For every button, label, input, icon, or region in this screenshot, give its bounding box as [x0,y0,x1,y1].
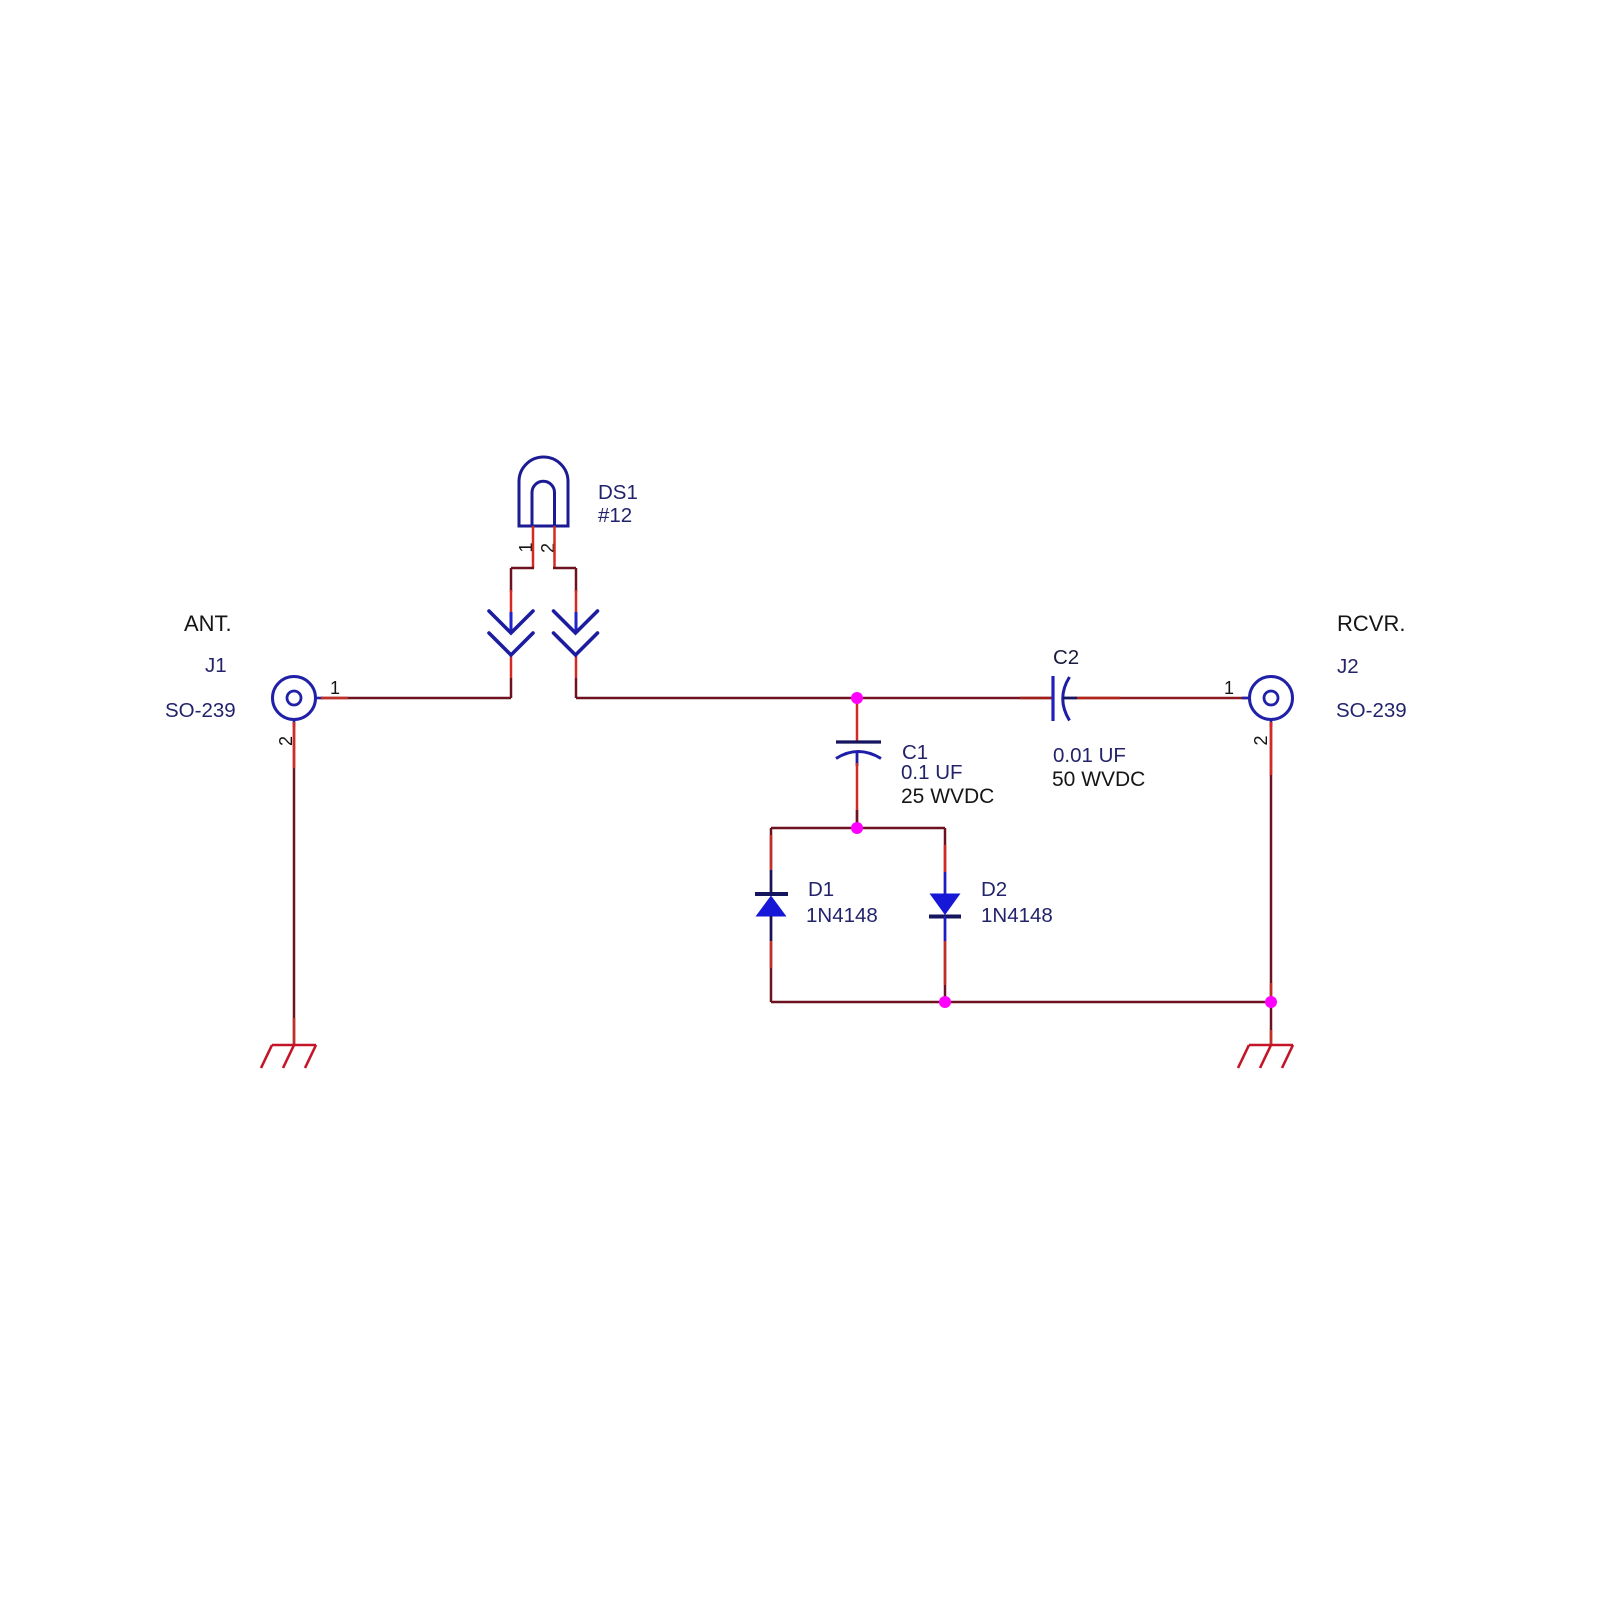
wire J1 pin1 to lamp socket left column [321,697,511,700]
svg-text:SO-239: SO-239 [165,699,236,722]
svg-text:0.01 UF: 0.01 UF [1053,744,1126,767]
wire node A to C2 [857,697,1052,700]
wire node D to ground [1270,1002,1273,1045]
ground symbol left [261,1045,316,1068]
wire C1 bottom lead [856,763,859,828]
wire DS1 pin2 lead [553,526,576,568]
wire diode box bottom [771,1001,945,1004]
wire C2 to J2 pin1 [1077,697,1250,700]
svg-text:1N4148: 1N4148 [806,904,878,927]
svg-text:1: 1 [1224,678,1234,698]
wire D1 lower lead [770,916,773,1002]
svg-text:J1: J1 [205,654,227,677]
svg-text:0.1 UF: 0.1 UF [901,761,963,784]
svg-text:2: 2 [1251,735,1271,745]
wire diode box top [771,827,945,830]
svg-text:25 WVDC: 25 WVDC [901,785,994,808]
svg-text:ANT.: ANT. [184,611,232,636]
svg-text:RCVR.: RCVR. [1337,611,1405,636]
wire D1 upper lead [770,828,773,894]
wire J1 pin2 down to ground [293,722,296,1045]
svg-text:#12: #12 [598,504,632,527]
wire DS1 pin1 lead [511,526,534,568]
node C junction [939,996,951,1008]
wire D2 upper lead [944,828,947,894]
node A junction [851,692,863,704]
wire D2 lower lead [944,916,947,1002]
lamp DS1 [519,457,568,526]
node B junction [851,822,863,834]
diode D2 [929,894,961,917]
wire right socket column [575,568,578,698]
svg-text:1N4148: 1N4148 [981,904,1053,927]
svg-text:50 WVDC: 50 WVDC [1052,768,1145,791]
wire left socket column [510,568,513,698]
connector J2 [1242,677,1293,728]
wire bottom run to node D [945,1001,1271,1004]
svg-text:C2: C2 [1053,646,1079,669]
node D junction [1265,996,1277,1008]
svg-text:D1: D1 [808,878,834,901]
svg-text:DS1: DS1 [598,481,638,504]
wire main run right socket to node A [576,697,857,700]
connector J1 [273,677,324,728]
diode D1 [755,894,788,917]
ground symbol right [1238,1045,1293,1068]
capacitor C2 [1053,676,1077,721]
wire J2 pin2 down to node D [1270,722,1273,1002]
svg-text:J2: J2 [1337,655,1359,678]
svg-text:D2: D2 [981,878,1007,901]
svg-text:1: 1 [330,678,340,698]
svg-text:SO-239: SO-239 [1336,699,1407,722]
wire C1 top lead [856,698,859,742]
capacitor C1 [836,742,881,766]
socket contact right (double chevron) [554,611,598,655]
socket contact left (double chevron) [489,611,533,655]
